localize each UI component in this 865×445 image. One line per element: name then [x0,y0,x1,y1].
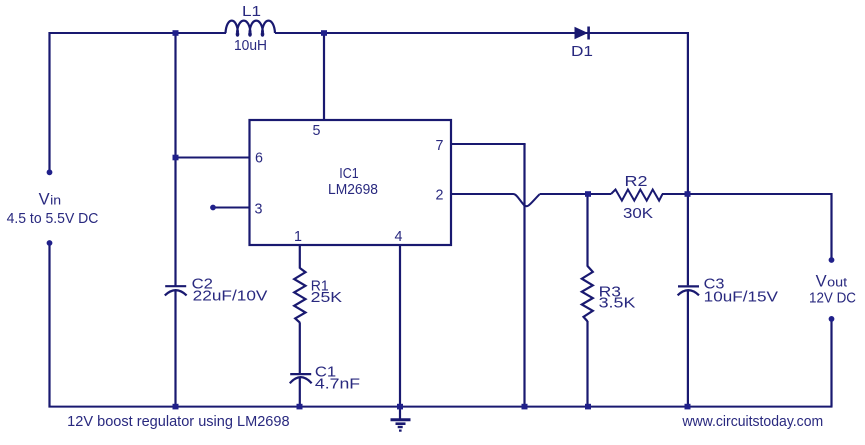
resistor R1 [294,268,305,323]
svg-text:1: 1 [294,229,302,245]
node junction bus at pin4 ground [397,404,403,410]
wire top rail from Vin corner to inductor [49,32,227,34]
wire pin5 vertical drop from top rail [323,33,325,120]
svg-text:12V boost regulator using LM26: 12V boost regulator using LM2698 [67,414,289,430]
svg-text:www.circuitstoday.com: www.circuitstoday.com [681,414,823,430]
svg-text:10uH: 10uH [234,38,267,54]
svg-text:10uF/15V: 10uF/15V [704,290,779,306]
node junction on top rail at C2 branch [173,30,179,36]
wire R3 to ground bus [586,321,588,407]
wire C1 to ground bus [299,377,301,406]
diode D1 [575,27,589,40]
svg-text:D1: D1 [571,44,593,60]
resistor R2 [611,190,663,201]
svg-text:22uF/10V: 22uF/10V [193,289,268,305]
capacitor C2 [165,286,187,295]
svg-text:3: 3 [255,202,263,218]
svg-text:R2: R2 [625,174,648,190]
svg-text:30K: 30K [623,206,654,222]
wire vertical at C2 branch lower [174,290,176,406]
svg-text:3.5K: 3.5K [599,296,636,312]
wire pin4 vertical to ground [399,245,401,419]
resistor R3 [582,266,593,321]
ground [391,420,411,432]
node terminal Vin plus [47,169,53,175]
wire pin3 stub horizontal [213,207,250,209]
wire pin6 horizontal [176,157,251,159]
svg-text:5: 5 [313,123,321,139]
node junction bus at C1 [297,404,303,410]
svg-text:4.7nF: 4.7nF [315,377,361,393]
op-amp U1 : IC1 LM2698 box [250,120,452,245]
wire diode output vertical to C3 [687,32,689,285]
capacitor C1 [290,374,312,383]
capacitor C3 [678,286,699,295]
node junction bus at R3 [585,404,591,410]
node terminal pin3 stub [210,205,216,211]
svg-text:L1: L1 [242,4,261,20]
svg-text:LM2698: LM2698 [328,182,378,198]
svg-text:7: 7 [436,138,444,154]
wire vertical at C2 branch upper [174,33,176,286]
node junction bus at C2 [173,404,179,410]
svg-text:12V DC: 12V DC [809,291,856,307]
node junction R3 top [585,191,591,197]
wire R1 to C1 [299,322,301,373]
svg-text:4: 4 [395,229,403,245]
wire C3 to ground bus [687,290,689,406]
wire ground bus bottom [49,406,833,408]
wire Vout vertical upper [830,193,832,260]
wire top rail from inductor to diode and right corner [275,32,689,34]
node terminal Vout plus [829,257,835,263]
node junction on top rail at pin5 drop [321,30,327,36]
svg-text:Vin: Vin [39,191,62,209]
svg-text:4.5 to 5.5V DC: 4.5 to 5.5V DC [7,211,99,227]
wire pin1 vertical to R1 [299,245,301,269]
node junction bus at C3 [685,404,691,410]
wire left vertical lower (Vin to ground bus) [48,243,50,408]
wire Vout vertical lower [830,319,832,407]
wire left vertical upper (Vin) [48,32,50,172]
svg-text:Vout: Vout [816,272,848,290]
wire hop over pin7 vertical [514,194,540,206]
node junction pin6 tee [173,155,179,161]
node junction bus at pin7 wire [522,404,528,410]
wire R2 to output node [662,193,833,195]
node junction output at C3 top [685,191,691,197]
node terminal Vout minus [829,316,835,322]
wire R3 vertical upper [586,194,588,267]
wire hop to R2 [540,193,612,195]
svg-text:IC1: IC1 [339,166,358,182]
node terminal Vin minus [47,240,53,246]
wire pin7 vertical down to ground bus [523,144,525,407]
inductor L1 [226,21,276,36]
wire pin7 horizontal [451,143,526,145]
svg-text:25K: 25K [311,290,343,306]
svg-text:2: 2 [436,188,444,204]
svg-text:6: 6 [255,151,263,167]
wire pin2 horizontal to hop [451,193,514,195]
